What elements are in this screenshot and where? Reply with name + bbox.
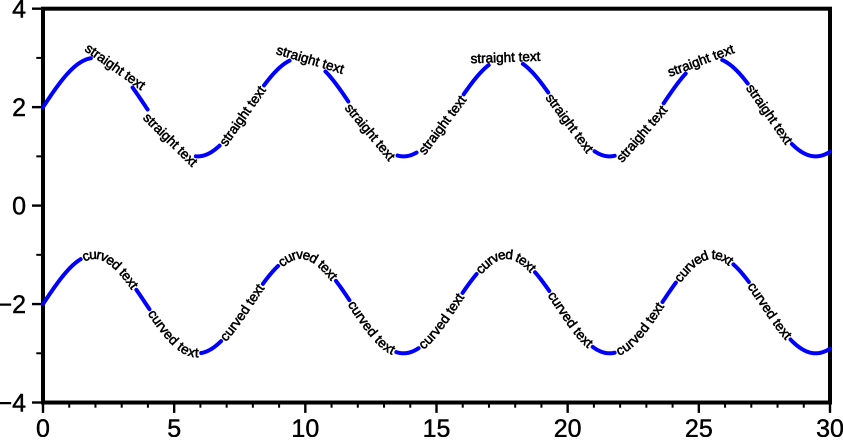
svg-text:10: 10	[291, 415, 319, 437]
svg-text:−4: −4	[0, 390, 26, 418]
svg-text:5: 5	[167, 415, 181, 437]
svg-text:30: 30	[816, 415, 843, 437]
svg-text:0: 0	[36, 415, 50, 437]
svg-text:t: t	[195, 345, 200, 360]
svg-text:0: 0	[12, 193, 26, 221]
svg-text:25: 25	[685, 415, 713, 437]
svg-text:2: 2	[12, 94, 26, 122]
svg-text:4: 4	[12, 0, 26, 24]
svg-text:20: 20	[554, 415, 582, 437]
svg-text:15: 15	[423, 415, 451, 437]
svg-text:−2: −2	[0, 291, 26, 319]
svg-text:straight text: straight text	[470, 49, 541, 66]
